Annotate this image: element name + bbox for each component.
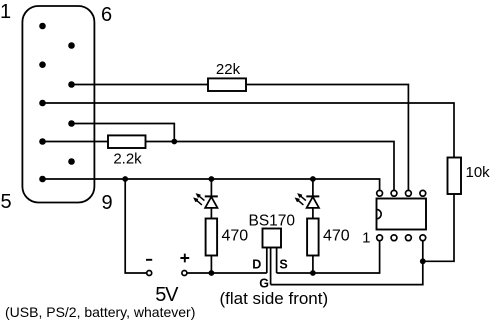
svg-text:470: 470 (222, 228, 249, 245)
svg-text:6: 6 (101, 4, 112, 26)
svg-text:S: S (279, 258, 287, 272)
svg-text:(USB, PS/2, battery, whatever): (USB, PS/2, battery, whatever) (5, 304, 195, 320)
svg-text:10k: 10k (466, 164, 491, 181)
svg-text:22k: 22k (216, 61, 241, 78)
svg-text:D: D (252, 258, 261, 272)
svg-text:BS170: BS170 (249, 212, 296, 229)
svg-text:5V: 5V (155, 284, 179, 306)
svg-text:2.2k: 2.2k (113, 151, 142, 168)
svg-text:5: 5 (1, 191, 12, 213)
svg-text:470: 470 (323, 228, 350, 245)
svg-text:(flat side front): (flat side front) (220, 289, 329, 308)
svg-text:9: 9 (102, 192, 113, 214)
svg-text:1: 1 (362, 229, 370, 246)
svg-text:1: 1 (0, 1, 11, 23)
